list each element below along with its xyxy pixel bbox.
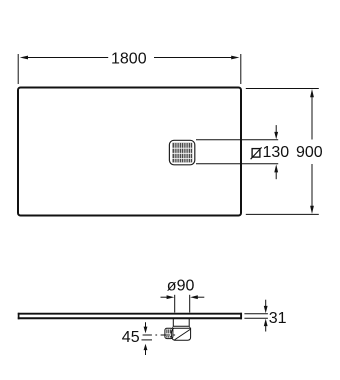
svg-text:900: 900 [296,144,323,161]
dimension text 31 [269,310,287,327]
drain grate [169,140,194,165]
45 lower stub line [142,339,153,341]
dimension line 1800 [20,56,240,60]
extension line top (31) [244,313,268,315]
dimension text o90 [167,278,195,295]
dimension text 900 [296,144,323,161]
outlet ribbed fitting [165,328,173,338]
dimension arrows o90 [161,295,205,299]
svg-text:ø90: ø90 [167,278,195,295]
extension line left (1800) [17,54,19,84]
dimension text 45 [122,329,140,346]
extension line right (1800) [240,54,242,84]
svg-text:1800: 1800 [111,51,147,68]
drain leader line lower [196,163,278,165]
dimension arrows 130 [274,125,278,179]
extension line top (900) [246,88,319,90]
dimension text 130 [263,144,290,161]
svg-text:45: 45 [122,329,140,346]
square symbol of 130 [251,147,262,159]
svg-text:31: 31 [269,310,287,327]
trap body [171,326,190,340]
trap centerline [143,334,179,336]
drain leader line upper [196,139,278,141]
dimension text 1800 [111,51,147,68]
extension line left (o90) [174,295,176,313]
extension line bottom (900) [246,213,319,215]
dimension line 900 [310,89,314,214]
svg-text:130: 130 [263,144,290,161]
tray side-view profile [18,313,242,320]
dimension arrows 45 [144,322,148,355]
extension line right (o90) [189,295,191,313]
tray top-view outline [18,88,241,216]
extension line bottom (31) [244,317,268,319]
dimension arrows 31 [264,300,268,332]
drain tailpiece pipe [173,319,189,326]
